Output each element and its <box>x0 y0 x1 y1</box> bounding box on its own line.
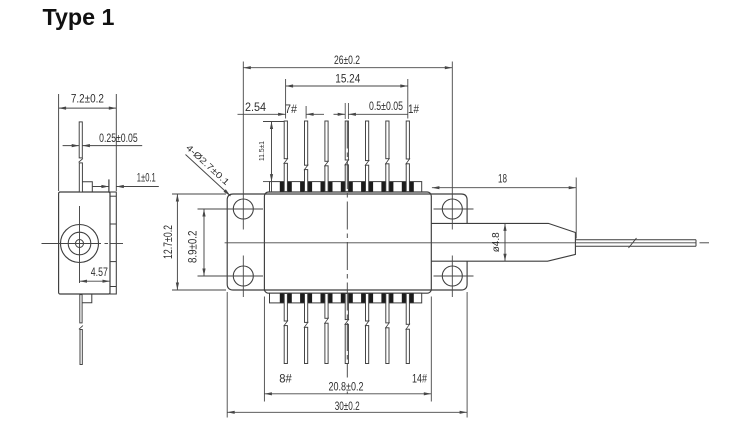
dimension φ4.8 <box>504 223 506 261</box>
dimension 4.57 <box>80 280 111 282</box>
dimension 15.24 extension lines <box>285 79 287 119</box>
hole centerline horizontal top-right <box>434 208 474 210</box>
svg-text:18: 18 <box>498 172 507 186</box>
dimension 30±0.2 <box>227 411 467 413</box>
pin 14 (bottom row) <box>406 294 409 325</box>
flange plate step marks <box>110 195 116 197</box>
flange outline with snout notch <box>227 194 467 290</box>
vertical centerline stub above dim <box>346 392 348 394</box>
dimension 18 <box>575 178 577 239</box>
fiber end cap <box>695 240 697 247</box>
vertical centerline <box>346 121 348 378</box>
horizontal axis centerline (top view) <box>225 242 697 244</box>
lens barrel outer circle <box>61 225 99 263</box>
svg-text:0.5±0.05: 0.5±0.05 <box>369 99 403 113</box>
fiber ferrule bottom line <box>575 245 696 247</box>
hole centerline horizontal bottom-right <box>434 275 474 277</box>
leader 4-Φ2.7±0.1 <box>186 155 231 197</box>
dimension 20.8±0.2 <box>264 393 431 395</box>
hole centerline vertical bottom-left <box>242 256 244 298</box>
fiber snout <box>431 223 575 261</box>
side view horizontal centerline <box>42 243 102 245</box>
dimension 12.7±0.2 extension lines <box>172 193 226 195</box>
svg-text:4.57: 4.57 <box>91 265 108 279</box>
svg-text:1±0.1: 1±0.1 <box>137 170 156 184</box>
package body outline <box>264 192 431 293</box>
dimension 0.25±0.05 <box>63 145 80 147</box>
svg-text:Type 1: Type 1 <box>43 4 115 30</box>
side view body <box>59 192 110 294</box>
lens aperture inner circle <box>76 240 84 248</box>
leader text 4-Φ2.7±0.1 <box>184 142 231 187</box>
side view flange plate edge <box>110 192 116 294</box>
svg-text:2.54: 2.54 <box>245 100 266 114</box>
svg-text:20.8±0.2: 20.8±0.2 <box>329 379 364 393</box>
svg-text:8.9±0.2: 8.9±0.2 <box>186 230 200 263</box>
svg-text:1#: 1# <box>408 102 419 116</box>
pin 11 (bottom row) <box>345 294 348 320</box>
dimension 0.5±0.05 extension lines <box>344 103 346 119</box>
pin 9 (bottom row) <box>305 294 308 323</box>
mounting hole top-left <box>233 199 253 219</box>
dimension 7.2±0.2 <box>58 94 60 191</box>
side view bottom tab <box>82 294 92 303</box>
svg-text:26±0.2: 26±0.2 <box>334 53 360 67</box>
bottom feedthrough band <box>270 293 422 303</box>
svg-text:14#: 14# <box>412 372 427 386</box>
svg-text:11.5±1: 11.5±1 <box>257 141 266 161</box>
fiber ferrule top line <box>575 239 696 241</box>
pin 4 (top row) <box>345 121 348 160</box>
dimension 15.24 <box>286 85 408 87</box>
mounting hole bottom-right <box>442 266 462 286</box>
pin 13 (bottom row) <box>386 294 389 323</box>
pin 1 (top row) <box>406 121 409 159</box>
side view pin standoff tab <box>82 182 92 192</box>
dimension 11.5±1 <box>271 122 273 193</box>
svg-text:7#: 7# <box>285 102 297 116</box>
side view top pin break <box>79 159 83 163</box>
mounting hole bottom-left <box>233 266 253 286</box>
lens barrel middle circle <box>68 232 91 255</box>
top feedthrough band <box>270 182 422 192</box>
dimension 26±0.2 hole-center extension lines <box>242 62 244 230</box>
dimension 2.54 <box>305 106 307 119</box>
side view centerline end dash <box>111 243 124 245</box>
svg-text:0.25±0.05: 0.25±0.05 <box>99 131 138 145</box>
pin 10 (bottom row) <box>325 294 328 319</box>
dimension 20.8±0.2 extension lines <box>263 297 265 402</box>
dimension 26±0.2 <box>243 67 452 69</box>
dimension 12.7±0.2 <box>176 194 178 290</box>
dimension 8.9±0.2 <box>203 209 205 276</box>
dimension 11.5±1 extension lines <box>263 121 284 123</box>
pin 2 (top row) <box>386 121 389 159</box>
svg-text:30±0.2: 30±0.2 <box>335 399 360 413</box>
pin 6 (top row) <box>305 121 308 165</box>
side view vertical centerline <box>79 206 81 283</box>
svg-text:15.24: 15.24 <box>335 71 360 85</box>
pin 5 (top row) <box>325 121 328 161</box>
side view top pin lower segment <box>79 163 82 192</box>
side view bottom pin lower segment <box>80 330 82 365</box>
side view top pin upper segment <box>79 122 82 158</box>
dimension 30±0.2 extension lines <box>226 292 228 418</box>
mounting hole top-right <box>442 199 462 219</box>
horizontal axis centerline end dash <box>700 242 710 244</box>
hole centerline horizontal top-left <box>198 208 264 210</box>
svg-text:12.7±0.2: 12.7±0.2 <box>161 225 175 259</box>
hole centerline horizontal bottom-left <box>198 275 264 277</box>
hole centerline vertical bottom-right <box>451 256 453 298</box>
pin 3 (top row) <box>366 121 369 161</box>
pin 12 (bottom row) <box>366 294 369 322</box>
side view centerline dot <box>105 243 109 245</box>
svg-text:ø4.8: ø4.8 <box>490 232 502 252</box>
fiber break mark <box>629 238 637 248</box>
side view short pin near edge <box>108 179 110 192</box>
dimension 1±0.1 <box>92 186 109 188</box>
svg-text:8#: 8# <box>279 372 292 386</box>
side view bottom pin upper segment <box>80 295 82 323</box>
side view bottom pin break <box>79 326 83 330</box>
pin 7 (top row) <box>284 121 287 159</box>
svg-text:7.2±0.2: 7.2±0.2 <box>71 91 104 105</box>
dimension 0.5±0.05 <box>334 113 346 115</box>
pin 8 (bottom row) <box>284 294 287 322</box>
